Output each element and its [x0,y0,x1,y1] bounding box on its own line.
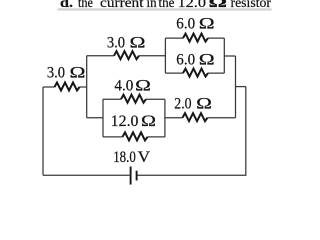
svg-text:Ω: Ω [196,95,212,112]
svg-text:Ω: Ω [135,78,151,95]
wire: 6 ohm parallel box right edge [223,38,225,73]
svg-text:Ω: Ω [199,51,215,68]
wire: top branch horizontal with 3.0 ohm gap [87,55,114,57]
svg-text:2.0: 2.0 [174,95,192,112]
wire: mid vertical [86,56,88,118]
resistor 4.0 ohm zigzag [121,95,146,103]
wire: 6 ohm box bottom rail [165,72,183,74]
wire: jog from outer right vertical to inner right vertical [236,86,246,88]
svg-text:in: in [147,0,157,11]
svg-text:current: current [100,0,144,11]
svg-text:3.0: 3.0 [47,65,65,82]
wire: 4/12 box bottom rail [103,136,123,138]
resistor 6.0 ohm lower zigzag [183,69,208,77]
svg-text:6.0: 6.0 [176,51,195,68]
top text: d. the current in the 12.0 ohm resistor [60,0,271,11]
wire: 4/12 parallel box left edge [102,99,104,137]
svg-text:3.0: 3.0 [107,35,125,52]
resistor 12.0 ohm zigzag [123,132,148,140]
svg-text:Ω: Ω [209,0,228,11]
wire: left 3.0 ohm branch horizontal (resistor gap) [43,86,55,88]
svg-text:4.0: 4.0 [114,78,133,95]
wire: 6 ohm box top rail [165,37,183,39]
svg-text:d.: d. [60,0,73,11]
svg-text:the: the [78,0,93,11]
svg-text:V: V [138,149,151,166]
wire: stub into 4/12 box [87,117,103,119]
wire: 4/12 box top rail [103,98,121,100]
wire: 6 ohm box output to inner vertical [224,55,235,57]
wire: bottom left to battery [43,174,130,176]
resistor 2.0 ohm zigzag [183,113,208,121]
wire: battery to bottom right corner, up outer right vertical [137,87,245,176]
svg-text:Ω: Ω [130,35,146,52]
resistor 6.0 ohm upper zigzag [183,34,208,42]
wire: inner right vertical [235,56,237,118]
svg-text:Ω: Ω [199,15,215,32]
resistor 3.0 ohm top zigzag [114,51,139,59]
svg-text:6.0: 6.0 [176,15,195,32]
svg-text:18.0: 18.0 [113,149,136,166]
svg-text:resistor: resistor [231,0,272,11]
resistor 3.0 ohm left zigzag [55,83,80,91]
svg-text:12.0: 12.0 [111,113,139,130]
wire: 2.0 ohm branch horizontal with gap [165,117,183,119]
svg-text:Ω: Ω [70,65,86,82]
svg-text:the: the [159,0,175,11]
wire: left vertical [42,87,44,175]
wire: 6 ohm parallel box left edge [164,38,166,73]
svg-text:Ω: Ω [141,113,156,130]
svg-text:12.0: 12.0 [178,0,207,11]
scan smudge band under top text [58,8,272,10]
battery 18.0 V [131,167,137,185]
wire: 4/12 parallel box right edge [164,99,166,137]
